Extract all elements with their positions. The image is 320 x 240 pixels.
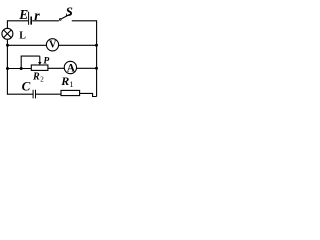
wire top rail middle segment bbox=[32, 20, 59, 22]
svg-text:S: S bbox=[66, 4, 73, 19]
capacitor C plate right bbox=[35, 90, 37, 99]
rheostat slider arrow shaft bbox=[39, 56, 41, 62]
svg-text:V: V bbox=[49, 39, 57, 50]
wire bottom rail mid (capacitor to R1) bbox=[36, 93, 61, 95]
junction dot right voltmeter branch bbox=[95, 44, 98, 47]
svg-text:R: R bbox=[32, 72, 40, 83]
wire top rail right segment bbox=[72, 20, 97, 22]
battery E,r short plate bbox=[30, 17, 32, 25]
junction dot left voltmeter branch bbox=[6, 44, 9, 47]
wire rheostat slider riser bbox=[21, 56, 40, 68]
svg-text:A: A bbox=[67, 62, 76, 74]
rheostat R2 box bbox=[31, 65, 48, 70]
rheostat slider arrowhead bbox=[38, 62, 41, 65]
lamp L cross diagonal 2 bbox=[4, 30, 12, 38]
svg-text:E: E bbox=[18, 7, 28, 22]
resistor R1 box bbox=[61, 90, 80, 95]
wire voltmeter branch left bbox=[7, 44, 46, 46]
wire voltmeter branch right bbox=[58, 44, 96, 46]
svg-text:P: P bbox=[43, 56, 49, 67]
wire bottom rail left segment bbox=[7, 93, 33, 95]
wire ammeter branch left (to rheostat) bbox=[7, 68, 31, 70]
junction dot right ammeter branch bbox=[95, 67, 98, 70]
svg-text:r: r bbox=[34, 9, 40, 24]
wire left rail upper bbox=[6, 20, 8, 28]
svg-text:R: R bbox=[60, 74, 69, 88]
lamp L cross diagonal 1 bbox=[4, 30, 12, 38]
wire bottom right corner jog bbox=[80, 93, 97, 96]
capacitor C plate left bbox=[32, 90, 34, 99]
wire left rail lower bbox=[6, 40, 8, 95]
wire right rail bbox=[96, 20, 98, 96]
lamp L circle bbox=[2, 28, 13, 39]
wire top rail left segment bbox=[7, 20, 28, 22]
ammeter A circle bbox=[64, 61, 76, 73]
voltmeter V circle bbox=[46, 39, 58, 51]
wire ammeter to right rail bbox=[76, 67, 96, 69]
switch S contact circle bbox=[59, 19, 61, 21]
battery E,r long plate bbox=[28, 12, 30, 25]
wire rheostat to ammeter bbox=[48, 67, 65, 69]
switch S lever bbox=[61, 14, 71, 19]
junction dot left ammeter branch bbox=[6, 67, 9, 70]
svg-text:L: L bbox=[19, 31, 26, 42]
svg-text:2: 2 bbox=[40, 75, 44, 83]
junction dot rheostat riser bbox=[20, 67, 23, 70]
svg-text:1: 1 bbox=[70, 80, 74, 89]
svg-text:C: C bbox=[22, 78, 31, 93]
